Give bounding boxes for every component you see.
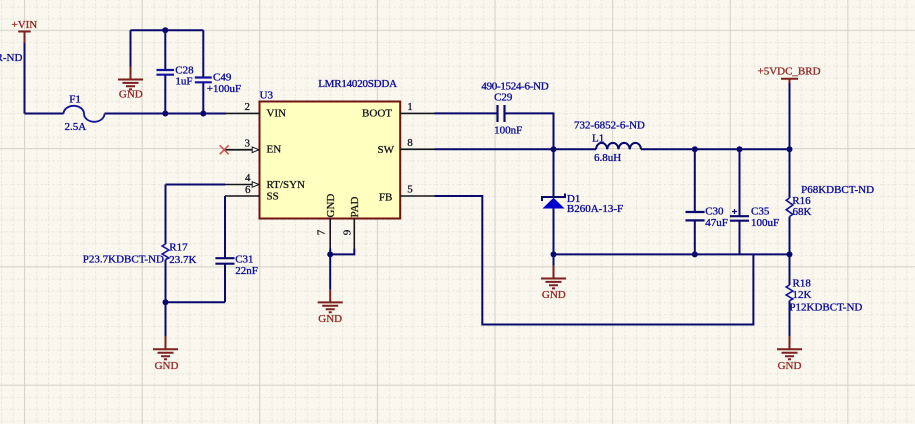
junction top rail at C28 [162,27,168,33]
svg-text:SS: SS [267,191,279,203]
junction under pin 7 [327,251,333,257]
capacitor C28 [157,30,195,113]
svg-text:VIN: VIN [267,107,287,119]
svg-text:RT/SYN: RT/SYN [267,179,306,191]
junction C30 top [692,146,698,152]
svg-text:C35: C35 [751,206,770,218]
capacitor C35 [730,149,779,254]
junction C30 bottom [692,251,698,257]
svg-text:P12KDBCT-ND: P12KDBCT-ND [789,301,862,313]
svg-text:22nF: 22nF [235,265,258,277]
svg-text:47uF: 47uF [705,217,728,229]
wire C31 bottom to R17 [166,301,226,303]
wire inductor to +5VDC node [641,148,790,150]
capacitor C31 [215,254,257,303]
svg-text:F1: F1 [69,93,81,105]
pin 5 FB [379,184,435,204]
pin 7 GND [316,194,338,249]
svg-text:PAD: PAD [349,196,361,217]
svg-text:C49: C49 [213,72,232,84]
svg-text:C29: C29 [494,91,513,103]
ground GND under R18 [777,336,802,372]
wire fuse to pin 2 [105,113,227,115]
svg-text:SW: SW [378,144,395,156]
wire +VIN down [24,43,26,114]
svg-text:BOOT: BOOT [362,107,392,119]
wire RT/SYN to R17 [166,184,226,186]
svg-text:4: 4 [245,172,251,184]
fuse F1 [64,93,105,133]
svg-text:L1: L1 [592,132,604,144]
wire FB network [435,196,754,325]
svg-text:LMR14020SDDA: LMR14020SDDA [318,78,397,90]
svg-text:FB: FB [379,191,392,203]
svg-text:GND: GND [119,89,143,101]
wire SS to C31 [224,196,226,258]
ground GND under R17 [153,302,178,372]
inductor L1 [574,120,645,165]
svg-text:7: 7 [316,229,328,235]
junction R17/C31 [163,299,169,305]
capacitor C30 [686,149,728,254]
resistor R18 [786,254,862,336]
svg-text:GND: GND [778,360,802,372]
svg-text:8: 8 [407,137,413,149]
svg-text:GND: GND [318,313,342,325]
svg-text:732-6852-6-ND: 732-6852-6-ND [574,120,645,132]
svg-text:6: 6 [245,184,251,196]
svg-text:3: 3 [245,138,251,150]
svg-text:23.7K: 23.7K [169,254,196,266]
ground GND top-left [118,30,143,101]
svg-text:68K: 68K [793,206,812,218]
wire +5VDC down [789,83,791,149]
svg-text:C31: C31 [235,254,253,266]
junction SW node [551,146,557,152]
junction R16 bottom [787,251,793,257]
svg-text:2.5A: 2.5A [65,121,87,133]
svg-text:R18: R18 [793,278,812,290]
pin 3 EN [225,138,281,156]
wire SW to inductor [435,148,597,150]
svg-text:6.8uH: 6.8uH [594,152,621,164]
svg-text:U3: U3 [260,90,274,102]
pin 1 BOOT [362,101,434,119]
capacitor C29 [481,81,548,137]
junction C35 top [737,146,743,152]
svg-text:1: 1 [407,101,413,113]
svg-text:+5VDC_BRD: +5VDC_BRD [758,66,821,78]
wire +VIN to fuse [25,113,64,115]
svg-text:5: 5 [407,184,413,196]
pin 8 SW [378,137,435,156]
svg-text:C30: C30 [705,206,724,218]
IC U3 LMR14020SDDA [260,78,401,218]
junction main wire at C28 [162,111,168,117]
resistor R16 [786,149,874,254]
svg-text:490-1524-6-ND: 490-1524-6-ND [481,81,548,93]
svg-text:GND: GND [542,289,566,301]
pin 4 RT/SYN [225,172,305,191]
power port +VIN [12,19,38,43]
pin 2 VIN [225,101,286,119]
resistor R17 [83,185,197,303]
svg-text:9: 9 [342,229,354,235]
svg-text:B260A-13-F: B260A-13-F [567,203,623,215]
junction diode bottom [551,251,557,257]
svg-text:100uF: 100uF [751,217,779,229]
svg-text:GND: GND [155,360,179,372]
wire C29 to SW node [505,113,554,149]
pin 6 SS [225,184,279,203]
pin 9 PAD [342,196,362,248]
power port +5VDC_BRD [758,66,821,84]
svg-text:P23.7KDBCT-ND: P23.7KDBCT-ND [83,254,164,266]
wire top rail [131,29,204,31]
svg-text:EN: EN [267,144,282,156]
svg-text:12K: 12K [793,289,812,301]
svg-text:1uF: 1uF [175,75,192,87]
svg-text:2: 2 [245,101,251,113]
bottom rail wire [554,253,790,255]
no-ERC cross on EN [220,145,229,154]
svg-text:GND: GND [325,194,337,218]
junction output node [787,146,793,152]
ground GND under D1 [541,266,566,301]
wire BOOT to C29 [435,112,498,114]
svg-text:+100uF: +100uF [207,83,241,95]
svg-text:P68KDBCT-ND: P68KDBCT-ND [801,184,874,196]
svg-text:R17: R17 [169,241,188,253]
ground GND under U3 [318,254,343,325]
wire pin7/pin9 join [330,249,354,255]
svg-text:100nF: 100nF [494,124,522,136]
svg-text:R-ND: R-ND [0,52,22,64]
svg-text:+VIN: +VIN [12,19,38,31]
capacitor C49 [195,30,241,113]
junction main wire at C49 [200,111,206,117]
diode D1 [542,149,623,265]
